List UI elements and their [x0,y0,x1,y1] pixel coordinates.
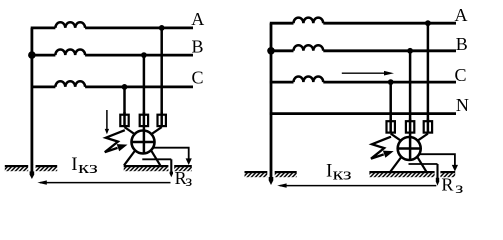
svg-text:A: A [191,9,204,29]
svg-text:з: з [185,173,192,190]
svg-text:кз: кз [78,158,98,177]
svg-text:C: C [192,67,204,87]
svg-text:з: з [455,180,463,197]
svg-text:B: B [456,34,468,54]
svg-text:N: N [456,95,469,115]
svg-text:B: B [192,36,204,56]
svg-text:C: C [455,65,467,85]
svg-text:R: R [441,174,453,194]
svg-text:I: I [71,154,77,175]
svg-text:A: A [455,5,468,25]
svg-text:I: I [326,161,332,182]
svg-text:кз: кз [333,165,352,184]
